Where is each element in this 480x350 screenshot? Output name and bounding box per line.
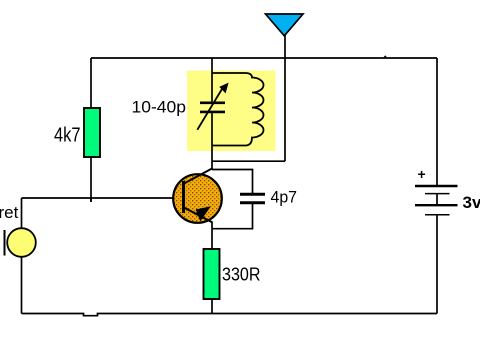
capacitor 4p7 [240,194,265,202]
svg-text:330R: 330R [222,264,261,284]
wire antenna vertical [284,34,286,161]
svg-text:3v: 3v [463,193,480,212]
antenna [266,14,304,36]
junction stub at 4k7/base [90,198,92,202]
variable capacitor 10-40p plates [200,103,225,112]
wire 4p7 bottom tee [212,204,253,229]
wire base horizontal [22,197,185,199]
wire mic top [21,198,23,229]
svg-text:ret: ret [0,203,19,222]
wire 4p7 top tee [212,170,253,194]
svg-text:4k7: 4k7 [54,124,81,146]
battery 3v [415,186,458,215]
wire right vertical lower [436,215,438,314]
wire bottom rail with jog [22,314,438,316]
electret microphone [5,228,36,257]
tank highlight (yellow box) [187,71,276,152]
wire antenna feed horizontal [212,160,285,162]
wire right vertical upper [436,58,438,185]
resistor 4k7 [84,108,100,157]
resistor 330R [204,249,220,299]
svg-text:4p7: 4p7 [271,188,298,207]
wire emitter to 330R [211,222,213,250]
wire mid vertical (varicap to collector) [211,113,213,169]
wire top rail [91,57,437,59]
transistor [173,168,222,222]
wire 330R to bottom rail [211,299,213,314]
inductor coil [212,73,264,146]
junction tick on top rail [383,55,388,58]
wire left vertical [90,58,92,198]
svg-text:+: + [418,166,426,182]
wire mic bottom [21,256,23,314]
wire mid vertical top (to varicap) [211,58,213,101]
svg-text:10-40p: 10-40p [132,98,187,117]
variable capacitor arrow [197,83,228,130]
